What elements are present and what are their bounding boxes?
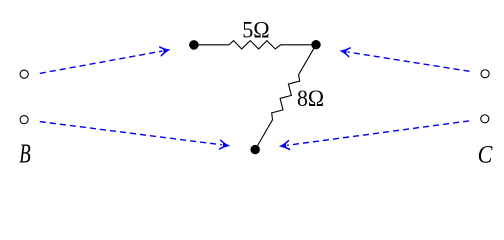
svg-text:5Ω: 5Ω bbox=[242, 17, 269, 43]
svg-text:8Ω: 8Ω bbox=[297, 85, 324, 111]
svg-text:C: C bbox=[478, 141, 494, 169]
svg-text:B: B bbox=[19, 139, 30, 169]
